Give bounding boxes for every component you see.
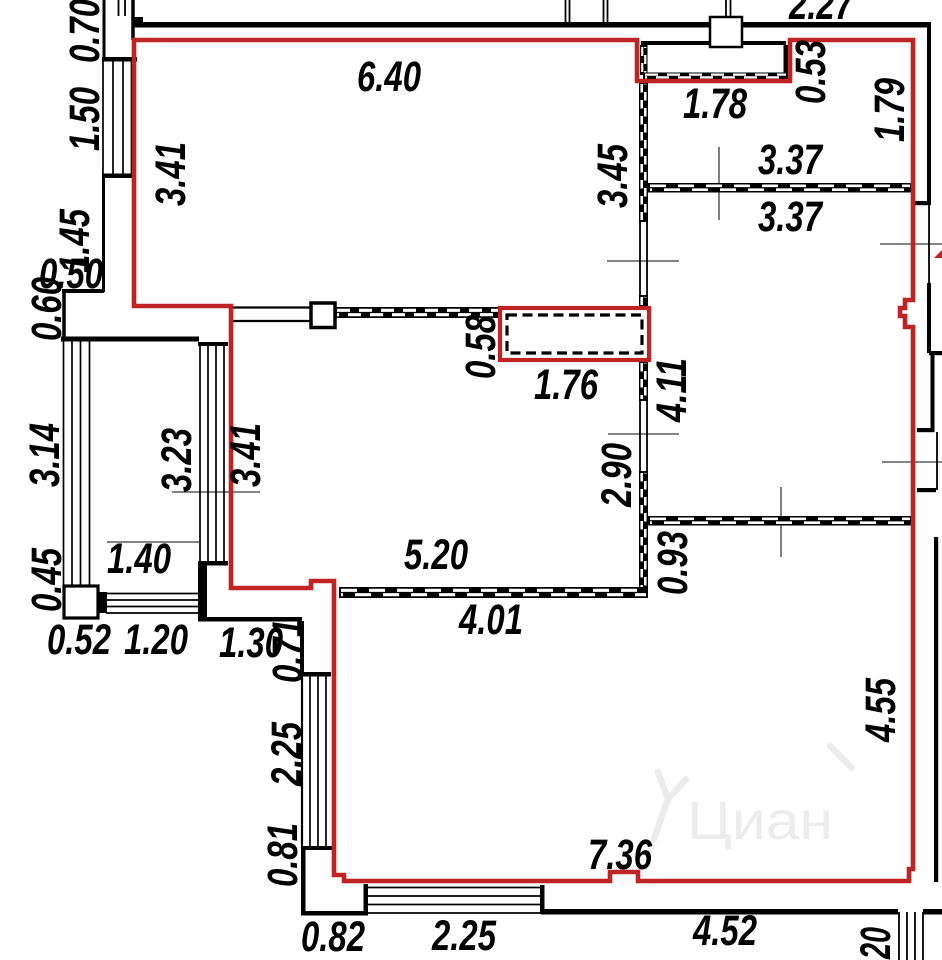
svg-text:0.70: 0.70: [61, 0, 109, 63]
svg-text:4.11: 4.11: [648, 358, 696, 423]
svg-text:7.36: 7.36: [588, 831, 653, 879]
svg-text:1.76: 1.76: [534, 361, 599, 409]
svg-text:4.01: 4.01: [458, 596, 523, 644]
svg-text:2.25: 2.25: [263, 721, 311, 787]
svg-text:1.78: 1.78: [683, 80, 747, 128]
svg-text:Циан: Циан: [687, 791, 833, 851]
svg-text:4.55: 4.55: [857, 677, 905, 743]
svg-text:2.25: 2.25: [431, 912, 497, 960]
svg-text:1.20: 1.20: [124, 616, 188, 664]
svg-text:0.71: 0.71: [264, 619, 312, 683]
svg-text:3.41: 3.41: [222, 423, 270, 487]
svg-text:0.45: 0.45: [23, 547, 71, 612]
svg-text:3.45: 3.45: [589, 143, 637, 208]
svg-text:2.27: 2.27: [788, 0, 854, 29]
svg-text:1.50: 1.50: [61, 87, 109, 151]
svg-text:3.37: 3.37: [758, 136, 824, 184]
svg-text:1.79: 1.79: [866, 78, 914, 142]
svg-text:0.60: 0.60: [23, 277, 71, 341]
svg-text:3.41: 3.41: [147, 142, 195, 206]
svg-text:5.20: 5.20: [404, 531, 468, 579]
svg-text:1.45: 1.45: [51, 208, 99, 273]
svg-text:0.93: 0.93: [649, 531, 697, 595]
svg-text:1.40: 1.40: [107, 535, 171, 583]
svg-text:6.40: 6.40: [357, 53, 421, 101]
svg-text:0.82: 0.82: [301, 913, 365, 960]
svg-text:3.23: 3.23: [153, 428, 201, 492]
svg-text:3.37: 3.37: [758, 193, 824, 241]
svg-text:4.52: 4.52: [692, 907, 757, 955]
svg-text:3.14: 3.14: [21, 423, 69, 487]
svg-text:0.58: 0.58: [457, 315, 505, 379]
svg-text:20: 20: [852, 927, 900, 960]
svg-text:2.90: 2.90: [593, 443, 641, 508]
svg-text:0.52: 0.52: [47, 616, 111, 664]
svg-text:0.81: 0.81: [259, 823, 307, 887]
svg-text:0.53: 0.53: [787, 40, 835, 104]
